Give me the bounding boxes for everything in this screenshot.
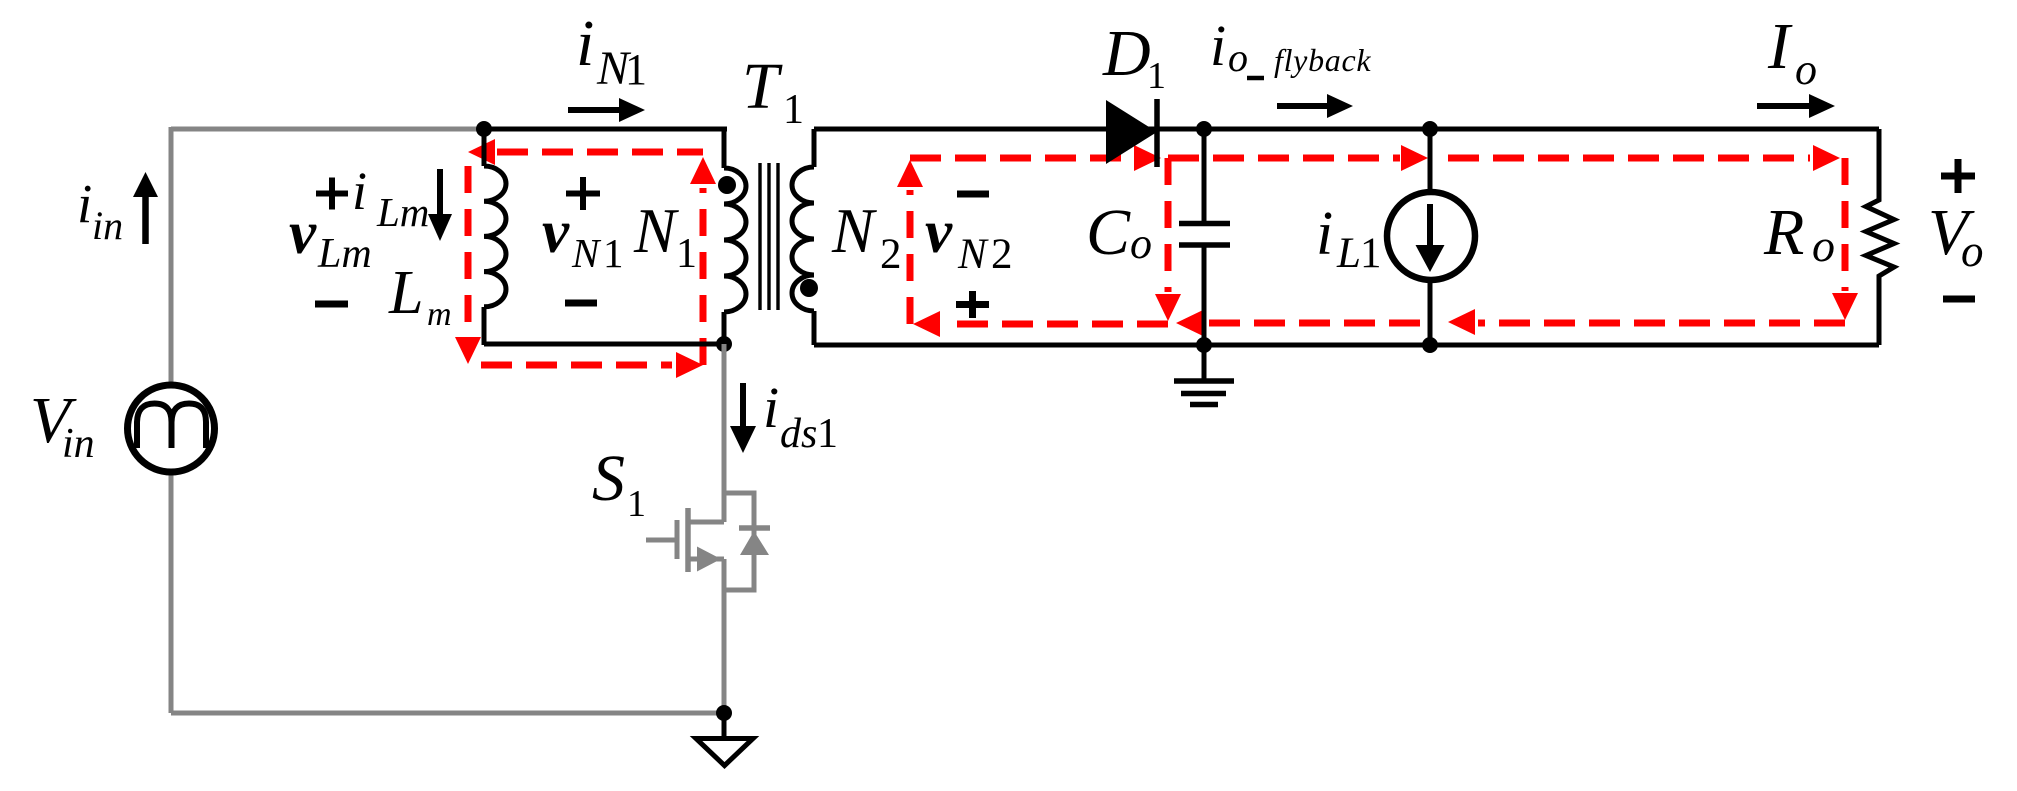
red loop 1 arrow up	[690, 157, 716, 184]
mosfet S1 gate bar	[675, 520, 680, 559]
red loop 1 left	[465, 166, 472, 333]
ground S1 triangle	[696, 739, 753, 766]
svg-text:1: 1	[817, 411, 838, 457]
svg-text:in: in	[92, 203, 123, 248]
red loop 2 arrow up	[897, 160, 923, 187]
current source iL1 top lead	[1428, 129, 1433, 192]
svg-text:L: L	[1336, 230, 1361, 277]
resistor Ro	[1866, 129, 1894, 345]
arrow Io (right)	[1757, 103, 1812, 109]
mosfet S1 body diode bar	[739, 525, 770, 531]
red loop 3 arrow left b	[1176, 310, 1203, 336]
node Co bottom	[1196, 337, 1212, 353]
node Co top	[1196, 121, 1212, 137]
node iL1 top	[1422, 121, 1438, 137]
red loop 3 arrow right a	[1401, 145, 1428, 171]
red loop 1 right	[700, 188, 707, 365]
svg-text:i: i	[763, 375, 779, 440]
label + (vN2)	[956, 291, 989, 318]
red loop 3 top segment a	[1168, 155, 1400, 162]
svg-text:o: o	[1130, 219, 1152, 268]
svg-text:I: I	[1767, 10, 1793, 83]
svg-text:L: L	[388, 259, 423, 327]
svg-text:N: N	[633, 196, 679, 266]
svg-text:N: N	[571, 230, 602, 276]
svg-text:v: v	[289, 200, 317, 267]
capacitor Co top lead	[1202, 129, 1207, 221]
mosfet S1 body diode triangle	[740, 531, 769, 555]
current source iL1 circle	[1387, 192, 1475, 280]
red loop 2 arrow right	[1134, 145, 1161, 171]
wire gray left upper (Vin top lead)	[169, 127, 174, 382]
red loop 3 right	[1842, 158, 1849, 291]
svg-text:R: R	[1763, 196, 1804, 269]
red loop 2 right	[1165, 158, 1172, 292]
svg-text:1: 1	[1147, 55, 1166, 97]
capacitor Co bottom lead	[1202, 247, 1207, 345]
label - (vN1)	[565, 300, 597, 307]
red loop 3 bottom segment a	[1478, 320, 1845, 327]
svg-text:Lm: Lm	[317, 231, 372, 277]
label + (vLm)	[316, 178, 348, 210]
red loop 1 arrow down	[455, 337, 481, 364]
arrow i_in (up)	[142, 196, 149, 244]
red loop 1 arrow right	[676, 352, 703, 378]
svg-text:ds: ds	[780, 411, 817, 457]
svg-text:1: 1	[625, 45, 647, 94]
ground secondary lead	[1202, 345, 1207, 379]
svg-text:i: i	[576, 7, 594, 80]
red loop 3 bottom segment b	[1206, 320, 1420, 327]
svg-text:2: 2	[991, 231, 1013, 278]
svg-text:N: N	[957, 231, 989, 278]
svg-text:1: 1	[1360, 230, 1382, 277]
svg-text:o: o	[1961, 226, 1984, 276]
svg-text:m: m	[427, 296, 452, 333]
wire gray left lower (Vin bottom lead)	[169, 474, 174, 713]
svg-text:flyback: flyback	[1274, 42, 1371, 78]
wire bottom bus secondary	[814, 343, 1879, 348]
mosfet S1 channel bar	[685, 508, 691, 572]
label + (vN1)	[566, 177, 600, 210]
node primary top junction	[476, 121, 492, 137]
red loop 2 bottom	[944, 321, 1168, 328]
transformer core	[760, 163, 778, 310]
svg-text:T: T	[742, 50, 783, 123]
red loop 1 top	[497, 149, 703, 156]
mosfet S1 source stub	[688, 557, 724, 562]
label - (vLm)	[315, 301, 348, 308]
node primary bottom junction	[716, 336, 732, 352]
svg-text:i: i	[352, 161, 367, 221]
red loop 3 arrow right b	[1813, 145, 1840, 171]
svg-text:i: i	[1316, 200, 1333, 268]
red loop 3 arrow left a	[1448, 309, 1475, 335]
arrow i_Lm (down)	[437, 169, 443, 218]
red loop 2 arrow down	[1155, 294, 1181, 321]
svg-text:Lm: Lm	[376, 189, 429, 235]
mosfet S1 source wire	[722, 559, 727, 713]
svg-text:in: in	[62, 421, 95, 467]
transformer primary winding N1	[724, 129, 746, 345]
ground secondary bars	[1174, 381, 1234, 405]
arrow i_o_flyback (right)	[1277, 103, 1331, 109]
red loop 1 bottom	[481, 362, 672, 369]
source Vin circle	[128, 385, 215, 472]
wire bottom bus primary	[484, 342, 727, 347]
svg-text:v: v	[925, 199, 953, 266]
label + (Vo)	[1941, 159, 1975, 193]
wire gray top (Vin to primary node)	[171, 127, 484, 132]
svg-text:1: 1	[783, 87, 804, 133]
diode D1	[1106, 100, 1157, 164]
arrow i_ds1 (down)	[740, 383, 746, 430]
svg-text:D: D	[1102, 17, 1151, 90]
wire gray bottom (Vin to S1 source)	[171, 711, 724, 716]
mosfet S1 drain wire	[722, 344, 727, 522]
ground S1 lead	[722, 713, 727, 739]
source Vin m symbol	[137, 404, 206, 449]
svg-text:N: N	[831, 196, 877, 266]
mosfet S1 body branch	[724, 493, 754, 590]
transformer phase dot secondary	[800, 279, 818, 297]
svg-text:v: v	[542, 199, 570, 266]
mosfet S1 drain stub	[688, 520, 724, 525]
current source iL1 bottom lead	[1428, 280, 1433, 345]
svg-text:o: o	[1812, 220, 1835, 271]
arrow i_N1 (right)	[568, 107, 623, 113]
red loop 2 top	[910, 155, 1130, 162]
node iL1 bottom	[1422, 337, 1438, 353]
wire top bus primary	[481, 127, 727, 132]
svg-text:C: C	[1086, 196, 1131, 269]
capacitor Co top plate	[1179, 221, 1230, 227]
svg-text:1: 1	[603, 230, 624, 276]
svg-text:1: 1	[676, 231, 697, 277]
diode D1 cathode bar	[1154, 99, 1160, 167]
svg-text:1: 1	[627, 483, 646, 525]
transformer secondary winding N2	[792, 129, 814, 345]
red loop 3 top segment b	[1448, 155, 1810, 162]
red loop 2 arrow left	[913, 311, 940, 337]
label - (vN2)	[957, 191, 989, 198]
transformer phase dot primary	[718, 176, 736, 194]
svg-text:S: S	[592, 442, 625, 515]
svg-text:i: i	[77, 173, 92, 234]
inductor Lm	[484, 129, 506, 345]
red loop 2 left	[907, 190, 914, 324]
red loop 3 arrow down	[1832, 293, 1858, 320]
wire top bus secondary	[814, 127, 1879, 132]
mosfet S1 source arrow	[697, 547, 721, 572]
red loop 1 arrow left	[468, 139, 495, 165]
svg-text:i: i	[1210, 13, 1226, 78]
svg-text:o: o	[1795, 45, 1817, 94]
mosfet S1 gate lead	[646, 538, 677, 543]
svg-text:o: o	[1228, 35, 1248, 80]
node S1 source junction	[716, 705, 732, 721]
label - (Vo)	[1943, 296, 1975, 303]
capacitor Co bottom plate	[1179, 242, 1230, 248]
svg-text:2: 2	[880, 231, 902, 278]
current source iL1 arrow	[1427, 204, 1433, 248]
